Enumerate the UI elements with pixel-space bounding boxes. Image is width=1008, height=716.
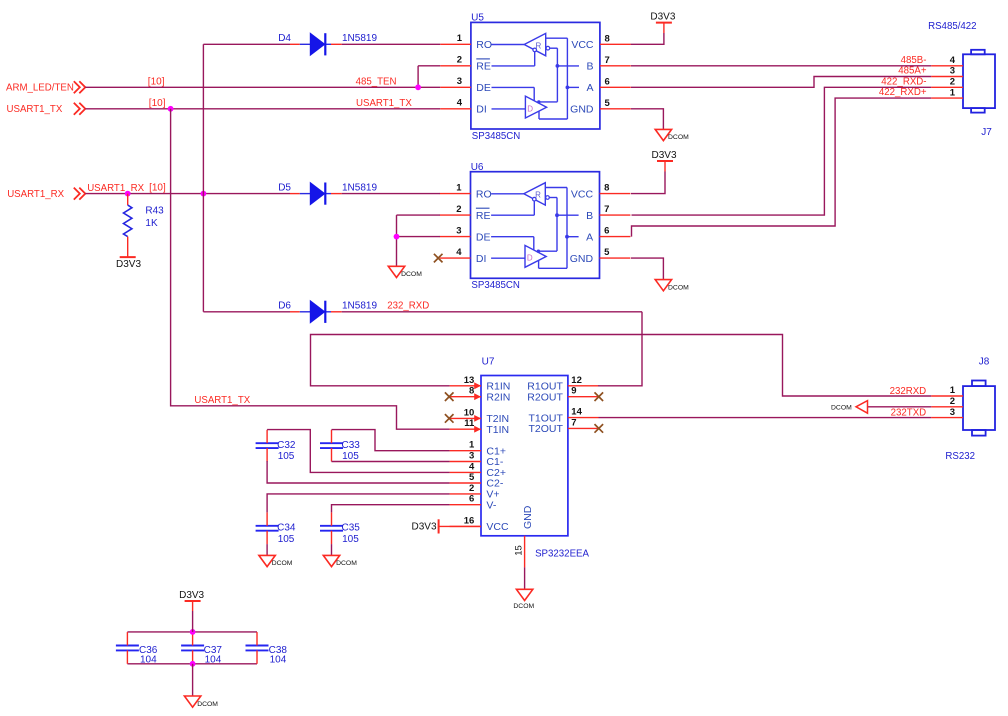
svg-text:105: 105 — [342, 534, 359, 545]
svg-text:A: A — [586, 82, 593, 94]
svg-text:3: 3 — [950, 407, 955, 418]
svg-text:DCOM: DCOM — [513, 603, 534, 610]
svg-text:1: 1 — [456, 182, 462, 193]
svg-text:RO: RO — [476, 39, 492, 51]
svg-text:7: 7 — [571, 417, 576, 428]
svg-text:2: 2 — [950, 396, 955, 407]
svg-text:RS485/422: RS485/422 — [928, 21, 976, 32]
svg-text:C32: C32 — [277, 440, 296, 451]
svg-text:4: 4 — [469, 461, 475, 472]
svg-text:[10]: [10] — [148, 76, 165, 87]
svg-text:DCOM: DCOM — [668, 284, 689, 291]
svg-text:USART1_TX: USART1_TX — [356, 98, 412, 109]
svg-text:USART1_TX: USART1_TX — [194, 395, 250, 406]
svg-text:D: D — [527, 104, 533, 113]
svg-text:R2OUT: R2OUT — [527, 391, 563, 403]
svg-text:2: 2 — [456, 204, 461, 215]
svg-text:GND: GND — [570, 253, 594, 265]
svg-text:SP3232EEA: SP3232EEA — [535, 548, 589, 559]
svg-text:RS232: RS232 — [945, 451, 975, 462]
svg-text:VCC: VCC — [486, 521, 509, 533]
svg-text:2: 2 — [469, 483, 474, 494]
svg-text:8: 8 — [604, 183, 609, 194]
svg-text:3: 3 — [469, 451, 474, 462]
svg-text:D3V3: D3V3 — [652, 150, 677, 161]
svg-text:9: 9 — [571, 386, 576, 397]
svg-text:C34: C34 — [277, 523, 296, 534]
svg-text:15: 15 — [514, 545, 525, 556]
svg-text:4: 4 — [456, 247, 462, 258]
svg-text:[10]: [10] — [149, 98, 166, 109]
svg-text:3: 3 — [456, 225, 461, 236]
svg-text:DE: DE — [476, 82, 491, 94]
svg-text:DCOM: DCOM — [336, 560, 357, 567]
svg-text:D6: D6 — [278, 301, 291, 312]
svg-text:DI: DI — [476, 253, 487, 265]
svg-text:5: 5 — [469, 472, 475, 483]
svg-text:D: D — [527, 254, 533, 263]
svg-text:DCOM: DCOM — [401, 271, 422, 278]
svg-text:232_RXD: 232_RXD — [387, 301, 429, 312]
svg-text:SP3485CN: SP3485CN — [471, 280, 519, 291]
svg-text:13: 13 — [464, 375, 475, 386]
svg-text:D5: D5 — [278, 182, 291, 193]
svg-text:D3V3: D3V3 — [650, 12, 675, 23]
svg-text:[10]: [10] — [149, 182, 166, 193]
svg-text:232RXD: 232RXD — [890, 386, 927, 397]
svg-text:SP3485CN: SP3485CN — [472, 131, 520, 142]
svg-text:RO: RO — [476, 188, 492, 200]
svg-text:6: 6 — [604, 226, 609, 237]
svg-text:1K: 1K — [145, 218, 158, 229]
svg-text:T1IN: T1IN — [486, 424, 509, 436]
svg-text:RE: RE — [476, 210, 491, 222]
svg-text:485A+: 485A+ — [898, 66, 927, 77]
svg-text:16: 16 — [464, 515, 475, 526]
svg-text:USART1_TX: USART1_TX — [7, 104, 63, 115]
svg-text:1: 1 — [950, 87, 956, 98]
svg-text:232TXD: 232TXD — [891, 407, 927, 418]
svg-text:1: 1 — [457, 33, 463, 44]
svg-text:B: B — [586, 61, 593, 73]
svg-text:8: 8 — [605, 33, 610, 44]
svg-text:485_TEN: 485_TEN — [356, 77, 397, 88]
svg-text:USART1_RX: USART1_RX — [7, 189, 64, 200]
svg-text:2: 2 — [457, 55, 462, 66]
svg-text:J7: J7 — [981, 127, 992, 138]
svg-text:14: 14 — [571, 407, 582, 418]
svg-text:8: 8 — [469, 386, 474, 397]
svg-text:D3V3: D3V3 — [179, 590, 204, 601]
svg-text:USART1_RX: USART1_RX — [87, 183, 144, 194]
svg-text:U6: U6 — [471, 162, 484, 173]
svg-text:1N5819: 1N5819 — [342, 182, 377, 193]
svg-text:DI: DI — [476, 104, 487, 116]
svg-text:6: 6 — [605, 76, 610, 87]
svg-text:D3V3: D3V3 — [411, 522, 436, 533]
svg-text:1: 1 — [469, 440, 475, 451]
svg-text:U5: U5 — [471, 13, 484, 24]
svg-text:104: 104 — [140, 655, 157, 666]
svg-text:485B-: 485B- — [901, 55, 927, 66]
svg-text:VCC: VCC — [571, 188, 594, 200]
svg-text:1N5819: 1N5819 — [342, 33, 377, 44]
svg-text:GND: GND — [570, 104, 594, 116]
svg-text:U7: U7 — [482, 357, 495, 368]
svg-text:D3V3: D3V3 — [116, 259, 141, 270]
svg-text:7: 7 — [605, 55, 610, 66]
svg-text:C35: C35 — [342, 523, 361, 534]
svg-text:T2OUT: T2OUT — [528, 423, 563, 435]
svg-text:3: 3 — [457, 76, 462, 87]
svg-text:C33: C33 — [342, 440, 361, 451]
svg-text:R2IN: R2IN — [486, 391, 510, 403]
svg-text:104: 104 — [270, 655, 287, 666]
svg-text:4: 4 — [457, 98, 463, 109]
svg-text:GND: GND — [522, 505, 534, 529]
svg-text:104: 104 — [205, 655, 222, 666]
svg-text:J8: J8 — [979, 356, 990, 367]
svg-text:DCOM: DCOM — [668, 134, 689, 141]
svg-text:2: 2 — [950, 77, 955, 88]
svg-text:RE: RE — [476, 61, 491, 73]
svg-text:105: 105 — [342, 451, 359, 462]
svg-text:R43: R43 — [145, 206, 164, 217]
svg-text:10: 10 — [464, 407, 475, 418]
svg-text:VCC: VCC — [571, 39, 594, 51]
svg-text:5: 5 — [605, 98, 611, 109]
svg-text:1: 1 — [950, 385, 956, 396]
svg-text:1N5819: 1N5819 — [342, 301, 377, 312]
svg-text:B: B — [586, 210, 593, 222]
svg-text:12: 12 — [571, 375, 582, 386]
svg-text:DE: DE — [476, 231, 491, 243]
svg-text:422_RXD-: 422_RXD- — [881, 76, 926, 87]
svg-text:4: 4 — [950, 55, 956, 66]
svg-text:3: 3 — [950, 66, 955, 77]
svg-text:422_RXD+: 422_RXD+ — [879, 87, 927, 98]
svg-text:V-: V- — [486, 499, 496, 511]
svg-text:6: 6 — [469, 494, 474, 505]
svg-text:7: 7 — [604, 204, 609, 215]
svg-text:105: 105 — [278, 451, 295, 462]
svg-text:105: 105 — [278, 534, 295, 545]
svg-text:DCOM: DCOM — [831, 404, 852, 411]
svg-text:11: 11 — [464, 418, 475, 429]
svg-text:D4: D4 — [278, 33, 291, 44]
svg-text:ARM_LED/TEN: ARM_LED/TEN — [6, 83, 74, 94]
svg-text:A: A — [586, 231, 593, 243]
svg-text:DCOM: DCOM — [197, 701, 218, 708]
svg-text:DCOM: DCOM — [272, 560, 293, 567]
svg-text:5: 5 — [604, 247, 610, 258]
